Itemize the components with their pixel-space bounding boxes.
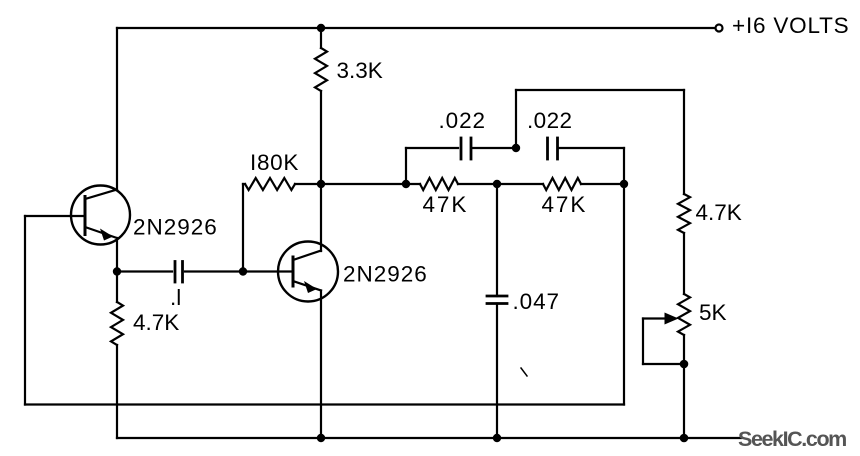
wire R3 node up to C2 — [405, 148, 407, 184]
svg-text:2N2926: 2N2926 — [343, 262, 428, 287]
wire R6 bottom to ground rail — [683, 335, 685, 438]
wire top supply rail — [117, 27, 715, 29]
wire C2 left lead — [406, 147, 458, 149]
node wiper junction — [680, 360, 689, 369]
wire feedback output down — [623, 184, 625, 405]
node Q2 emitter ground junction — [317, 434, 325, 442]
stray mark — [521, 368, 527, 376]
resistor R2 180K — [243, 178, 321, 190]
capacitor C2 .022 — [461, 138, 471, 159]
svg-text:.047: .047 — [513, 289, 560, 314]
svg-text:2N2926: 2N2926 — [133, 215, 218, 240]
wire C3 right lead — [560, 147, 625, 149]
svg-text:.l: .l — [170, 285, 181, 310]
capacitor C1 .1 — [175, 262, 183, 283]
svg-text:.022: .022 — [527, 108, 572, 133]
wire Q1 base lead — [25, 215, 85, 217]
wire left vertical from rail to Q1 collector — [116, 28, 118, 190]
svg-text:I80K: I80K — [250, 150, 299, 175]
wiper arm of R6 — [643, 313, 684, 365]
node Q1 emitter junction — [113, 267, 121, 275]
resistor R5 4.7K — [678, 194, 690, 233]
wire output node down to C4 — [496, 184, 498, 296]
wire top feedback horizontal — [516, 89, 684, 91]
transistor Q2 2N2926 — [278, 242, 338, 302]
wire Q1 emitter down — [116, 238, 118, 272]
resistor R3 47K — [406, 178, 497, 190]
wire R7 to ground rail — [116, 345, 118, 438]
node C4 ground junction — [493, 434, 501, 442]
wire C2 to C3 — [473, 147, 516, 149]
capacitor C4 .047 — [487, 296, 507, 304]
svg-text:SeekIC.com: SeekIC.com — [738, 427, 846, 451]
wire C4 to ground rail — [496, 304, 498, 439]
wire C3 down to output node — [623, 148, 625, 184]
wire collector node down to Q2 — [320, 184, 322, 251]
svg-text:47K: 47K — [423, 192, 469, 217]
resistor R7 4.7K — [111, 302, 123, 345]
wire R5 to R6 — [683, 233, 685, 294]
node output junction — [620, 180, 628, 188]
node Q2 collector junction — [317, 180, 325, 188]
wire emitter to C1 — [117, 270, 172, 272]
capacitor C3 .022 — [548, 138, 558, 159]
svg-text:5K: 5K — [699, 300, 727, 325]
potentiometer R6 5K — [678, 294, 690, 335]
node top rail 3.3K tap — [317, 24, 325, 32]
svg-text:.022: .022 — [439, 108, 486, 133]
node R6 ground junction — [680, 434, 689, 443]
svg-text:4.7K: 4.7K — [133, 310, 179, 335]
node cap junction — [512, 144, 520, 152]
node mid 47K junction — [493, 180, 501, 188]
wire collector node to R3 — [321, 183, 406, 185]
wire feedback bottom horizontal — [25, 403, 624, 405]
wire down to R5 — [683, 90, 685, 194]
wire ground rail — [117, 437, 741, 439]
svg-text:+I6 VOLTS: +I6 VOLTS — [732, 13, 849, 38]
wire Q1 emitter node to R7 — [116, 272, 118, 303]
svg-text:47K: 47K — [542, 192, 588, 217]
node Q2 base junction — [239, 267, 247, 275]
wire feedback up to Q1 base — [24, 216, 26, 405]
wire cap junction up — [515, 90, 517, 148]
node R3 left junction — [402, 180, 410, 188]
svg-text:3.3K: 3.3K — [337, 58, 383, 83]
wire C1 to Q2 base node — [185, 270, 243, 272]
wire Q2 emitter to ground rail — [320, 291, 322, 439]
node +16V terminal — [716, 25, 723, 32]
transistor Q1 2N2926 — [71, 186, 130, 245]
svg-text:4.7K: 4.7K — [696, 200, 742, 225]
resistor R1 3.3K — [315, 28, 327, 184]
wire base node to Q2 — [243, 270, 293, 272]
resistor R4 47K — [497, 178, 624, 190]
wire base node up to 180K — [242, 184, 244, 272]
